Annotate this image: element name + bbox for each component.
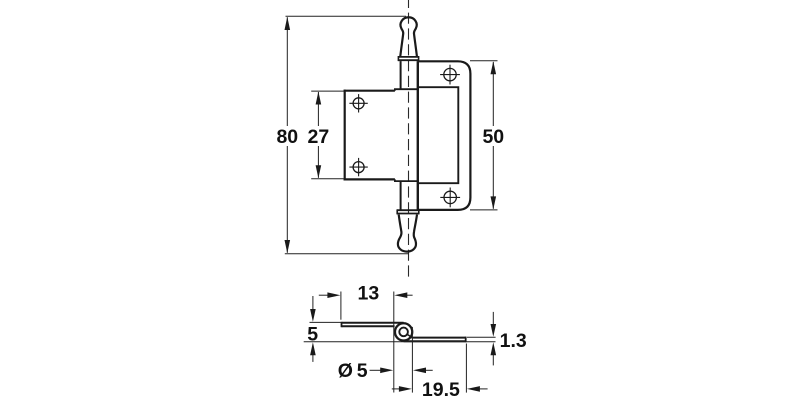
svg-text:1.3: 1.3 — [500, 330, 527, 352]
screw hole right top — [440, 65, 460, 85]
dimension 19.5 — [392, 327, 488, 393]
barrel — [401, 61, 418, 210]
centerline — [408, 0, 410, 277]
flange notch — [418, 87, 459, 183]
knuckle pin — [399, 328, 411, 338]
left plate — [344, 89, 418, 181]
finial top — [400, 17, 417, 56]
finial bottom — [398, 215, 417, 252]
upper leaf — [342, 322, 404, 327]
dimension 13 — [319, 292, 413, 393]
knuckle outer — [395, 323, 412, 340]
dimension 1.3 — [467, 312, 496, 366]
right flange — [418, 61, 471, 210]
screw hole right bottom — [440, 188, 460, 208]
screw hole left top — [349, 94, 367, 112]
svg-text:80: 80 — [276, 126, 298, 148]
svg-text:19.5: 19.5 — [422, 379, 460, 400]
svg-text:27: 27 — [308, 126, 330, 148]
dimension 50 — [470, 61, 498, 210]
dimension 80 — [285, 16, 409, 254]
collar top — [398, 56, 418, 61]
svg-text:13: 13 — [358, 283, 380, 305]
svg-text:50: 50 — [482, 126, 504, 148]
screw hole left bottom — [349, 158, 367, 176]
collar bottom — [397, 209, 419, 214]
dimension 27 — [311, 91, 344, 179]
dimension diameter 5 — [370, 369, 433, 371]
svg-text:Ø 5: Ø 5 — [338, 360, 368, 382]
dimension 5 — [304, 296, 496, 362]
svg-text:5: 5 — [307, 323, 318, 345]
lower leaf — [404, 337, 466, 343]
